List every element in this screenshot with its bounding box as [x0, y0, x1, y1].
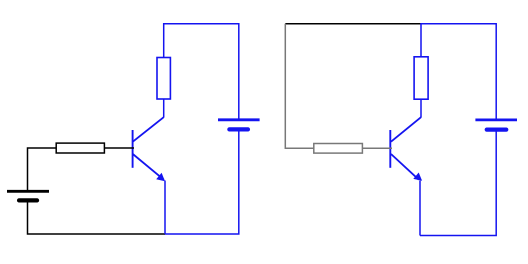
wire Q2 collector up to R4 [420, 99, 422, 117]
wire R3 to base of Q2 (gray) [362, 147, 392, 149]
resistor R1 (base, black) [56, 143, 104, 153]
wire V2 bottom / bottom rail to emitter node [165, 131, 239, 234]
wire R4 top / top rail blue segment / down to battery V3 [421, 24, 496, 120]
wire top rail (black segment) [285, 23, 421, 25]
resistor R3 (base, gray) [314, 144, 363, 154]
wire Q1 emitter down to bottom rail [164, 181, 166, 235]
battery V1 (black, left side) [7, 191, 49, 200]
transistor Q2 (NPN, blue) [390, 117, 422, 181]
transistor Q1 (NPN, blue) [133, 117, 165, 181]
wire V1 bottom to ground rail [28, 202, 166, 234]
wire V3 bottom / bottom rail to emitter node [420, 131, 496, 236]
wire R2 top / top rail / down to battery V2 [164, 24, 239, 120]
battery V2 (blue, right side) [218, 120, 260, 130]
wire left feedback leg (gray) [285, 24, 314, 149]
wire Q1 collector up to R2 [163, 99, 165, 118]
wire Q2 emitter down to bottom rail [419, 181, 421, 236]
resistor R2 (collector, blue) [157, 58, 170, 100]
battery V3 (blue, right side) [475, 120, 517, 130]
resistor R4 (collector, blue) [414, 57, 428, 99]
wire R1 to base of Q1 [104, 147, 134, 149]
wire V1 top to base resistor row [28, 148, 57, 190]
